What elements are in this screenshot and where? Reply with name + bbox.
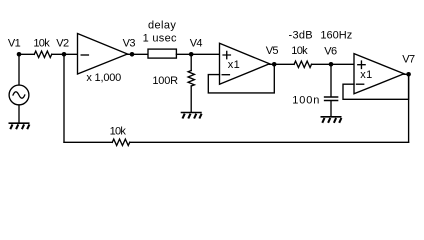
svg-text:10k: 10k [33, 37, 50, 49]
svg-text:x1: x1 [360, 69, 372, 81]
svg-text:V4: V4 [190, 38, 203, 50]
svg-text:V7: V7 [402, 54, 415, 66]
svg-text:-3dB: -3dB [289, 29, 313, 41]
svg-text:10k: 10k [110, 126, 127, 138]
svg-text:V6: V6 [324, 45, 337, 57]
svg-text:x 1,000: x 1,000 [86, 72, 121, 84]
svg-text:V2: V2 [56, 38, 69, 50]
svg-text:V3: V3 [123, 38, 136, 50]
svg-text:100R: 100R [152, 75, 178, 87]
svg-text:160Hz: 160Hz [320, 29, 352, 41]
svg-text:delay: delay [148, 20, 176, 32]
svg-text:1 usec: 1 usec [143, 33, 177, 45]
svg-text:x1: x1 [228, 59, 240, 71]
svg-text:10k: 10k [291, 45, 308, 57]
svg-text:V5: V5 [266, 45, 279, 57]
svg-text:V1: V1 [8, 37, 21, 49]
svg-text:100n: 100n [292, 95, 320, 107]
